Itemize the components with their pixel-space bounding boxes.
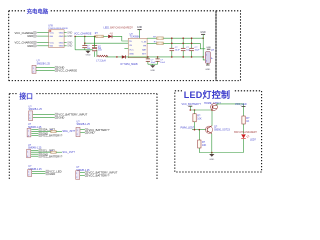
wire J5 pin1: [80, 129, 85, 131]
transistor Q1 (PMOS switch): [211, 104, 220, 111]
connector J5 designator: [77, 120, 91, 126]
connector J3 designator: [28, 144, 42, 149]
wire J4 pin1: [32, 170, 46, 172]
svg-text:D? SS54_SMAB: D? SS54_SMAB: [121, 63, 138, 66]
svg-text:10uF: 10uF: [160, 62, 165, 64]
power bar VCC_LED: [242, 106, 246, 108]
C4 labels: [186, 47, 190, 52]
capacitor C2: [82, 45, 87, 49]
wire J2 pin3: [31, 132, 38, 134]
port GND (pair 1): [27, 34, 37, 38]
port VCC_LED J4: [46, 169, 62, 173]
svg-text:U?8: U?8: [48, 24, 53, 27]
designator U1 label: [48, 24, 68, 30]
port GND J3: [39, 152, 48, 156]
capacitor C2b branch vertical wire: [94, 36, 96, 45]
junction: [211, 152, 213, 154]
svg-text:LED1: LED1: [104, 27, 111, 30]
wire rail A down right side: [202, 38, 204, 57]
resistor R4: [51, 130, 56, 132]
svg-text:2: 2: [77, 134, 78, 136]
svg-text:TC4056A: TC4056A: [130, 36, 141, 39]
wire base row: [192, 129, 206, 131]
svg-text:1: 1: [28, 172, 29, 174]
wire port pair2 to U1: [37, 42, 48, 45]
LED2 red diode: [241, 134, 249, 152]
svg-text:1: 1: [77, 130, 78, 132]
wire J5 pin2: [80, 132, 85, 134]
svg-text:GND: GND: [58, 116, 64, 120]
power bar VCC_BATTERY: [188, 106, 192, 110]
resistor R8: [242, 116, 245, 134]
ground symbol under caps2: [150, 64, 155, 72]
wire BAT rail B: [163, 42, 200, 44]
wire R4 to net label: [56, 130, 62, 132]
svg-text:10uF: 10uF: [195, 50, 201, 52]
port VCC_BATTERY J2: [39, 134, 63, 138]
svg-text:4: 4: [27, 156, 28, 158]
section box: charging circuit 充电电路: [9, 11, 216, 81]
svg-text:2: 2: [28, 175, 29, 177]
wire J6 pin2: [80, 175, 85, 177]
svg-text:GA: GA: [50, 45, 54, 48]
C3 labels: [175, 47, 181, 52]
connector J4 designator: [28, 165, 42, 171]
transistor Q2 NPN: [205, 126, 212, 134]
svg-text:L? 2.2uH: L? 2.2uH: [96, 61, 106, 63]
wire Q2 emitter down: [211, 134, 213, 153]
svg-text:GND: GND: [59, 33, 64, 35]
wire left rail into U2 pin2: [85, 42, 128, 44]
connector J1 designator: [29, 105, 43, 111]
wire caps2 bottom: [148, 63, 158, 65]
svg-text:SDA_JST?: SDA_JST?: [62, 129, 75, 133]
GND power port top right: [200, 31, 206, 38]
connector U4 designator: [37, 60, 51, 66]
junction: [194, 109, 196, 111]
wire J4 pin2: [32, 173, 46, 175]
wire ground rail: [199, 152, 243, 154]
svg-text:10K: 10K: [202, 144, 207, 147]
svg-text:BAT-CHG-IND-RED?: BAT-CHG-IND-RED?: [110, 27, 133, 30]
svg-text:1K: 1K: [246, 120, 249, 123]
port SCL_TOUCH: [39, 148, 56, 152]
svg-text:充电电路: 充电电路: [27, 7, 49, 15]
svg-text:BAT: BAT: [142, 48, 147, 51]
svg-text:VCC: VCC: [50, 33, 55, 35]
junction: [190, 109, 192, 111]
title 充电电路: [26, 7, 51, 15]
port VCC_BATTERY_INPUT: [55, 112, 88, 116]
svg-text:GND: GND: [67, 42, 72, 44]
svg-text:SET: SET: [142, 53, 147, 55]
wire VCC_CHARGE rail: [75, 35, 96, 37]
capacitor C1 branch vertical wire: [74, 36, 76, 49]
port VCC_BATTERY J6: [85, 174, 110, 178]
svg-text:1: 1: [29, 114, 30, 116]
svg-text:4: 4: [28, 135, 29, 137]
diode D1: [122, 55, 126, 58]
GND power port above battery conn: [206, 47, 211, 49]
connector J3 body: [27, 149, 31, 158]
GND power port above U2: [137, 26, 143, 38]
section box: empty right box: [216, 11, 241, 81]
svg-text:GND: GND: [59, 42, 64, 44]
C2b value label: [98, 47, 102, 52]
svg-text:VCC: VCC: [129, 49, 134, 51]
svg-text:SM02B-1.25: SM02B-1.25: [37, 62, 51, 65]
C7 labels: [160, 60, 165, 65]
svg-text:HOME_CTRL?: HOME_CTRL?: [204, 102, 221, 105]
Q2 labels: [214, 126, 230, 132]
diode LED1: [108, 33, 113, 39]
resistor R7: [198, 130, 201, 153]
junctions on bottom rail: [116, 56, 192, 58]
capacitor C2b: [92, 48, 97, 51]
connector J5 body: [76, 127, 80, 136]
port VCC_BATTERY J5: [85, 128, 110, 132]
svg-text:1: 1: [76, 173, 77, 175]
svg-text:S8050_SOT23: S8050_SOT23: [214, 129, 230, 132]
svg-text:GND: GND: [59, 46, 64, 48]
wire J2 pin2 to R4: [31, 130, 50, 132]
svg-text:GND: GND: [205, 69, 210, 71]
R8 labels: [246, 117, 250, 123]
svg-text:GND: GND: [209, 159, 214, 161]
port VCC_CHARGE (pair 1): [15, 31, 38, 35]
svg-text:GND: GND: [150, 70, 155, 72]
capacitor C6: [146, 57, 150, 64]
R7 labels: [202, 141, 207, 147]
junction: [84, 36, 86, 38]
wire LED1 to U2 pin1: [112, 36, 128, 41]
svg-text:GND: GND: [27, 44, 33, 48]
svg-text:GND: GND: [137, 26, 143, 29]
svg-text:VCC_BATTERY?: VCC_BATTERY?: [89, 174, 110, 178]
svg-text:GND: GND: [89, 131, 95, 135]
port GND at U4: [55, 66, 65, 70]
wire J3 pin4: [31, 155, 39, 157]
capacitor C4: [181, 38, 186, 57]
junction: [74, 36, 76, 38]
port SDA_TOUCH: [39, 128, 56, 132]
battery connector U3 body: [205, 52, 214, 64]
charger IC U2 designator: [130, 33, 141, 39]
wire R1 to LED1: [103, 35, 107, 37]
svg-text:GND: GND: [86, 55, 91, 57]
junction: [84, 42, 86, 44]
svg-text:VCC_BATTERY?: VCC_BATTERY?: [42, 134, 63, 138]
wire to conn bottom: [203, 57, 205, 60]
port GND J5: [85, 131, 95, 135]
capacitor C7: [156, 57, 160, 64]
title LED灯控制: [182, 88, 234, 100]
port GND: [55, 116, 65, 120]
wire R5 to net label: [56, 151, 62, 153]
C2 value label: [87, 46, 91, 51]
pin stubs U1 right with GND net labels: [64, 33, 73, 48]
C2b value label: [98, 46, 102, 51]
wire port pair1 to U1: [37, 33, 48, 36]
svg-text:VCC_CHARGE: VCC_CHARGE: [15, 31, 34, 35]
capacitor C3: [170, 38, 175, 57]
wire top row: [190, 109, 212, 111]
section box: LED灯控制: [175, 91, 262, 172]
svg-text:SCL_JST?: SCL_JST?: [62, 150, 75, 154]
svg-text:PWM_LED?: PWM_LED?: [181, 127, 195, 130]
port VCC_BATTERY J3: [39, 154, 63, 158]
wire J3 pin2 to R5: [31, 151, 51, 153]
junction: [94, 36, 96, 38]
capacitor C2 branch vertical wire: [84, 36, 86, 45]
junction: [199, 129, 201, 131]
wire J2 pin4: [31, 134, 38, 136]
connector J2 body: [27, 128, 31, 137]
junction: [202, 56, 204, 58]
port GND J2: [39, 132, 48, 136]
C6 labels: [151, 60, 156, 65]
svg-text:GA: GA: [50, 35, 54, 38]
svg-text:VCC_CHARGE: VCC_CHARGE: [74, 33, 92, 36]
svg-text:VCC_BATTERY?: VCC_BATTERY?: [182, 103, 202, 106]
wire U4 pin2: [36, 69, 55, 71]
svg-text:10K: 10K: [197, 118, 202, 121]
svg-text:CE: CE: [129, 45, 133, 47]
svg-text:1: 1: [28, 131, 29, 133]
mosfet U1 P-MOS-8205 body: [49, 30, 65, 48]
wire down to L row: [96, 50, 98, 57]
wire J2 pin1: [31, 128, 38, 130]
svg-text:GND: GND: [67, 46, 72, 48]
svg-text:BAT-CHG-IND-RED?: BAT-CHG-IND-RED?: [234, 131, 257, 134]
svg-text:VCC_CHARGE: VCC_CHARGE: [58, 69, 77, 73]
wire J6 pin1: [80, 172, 85, 174]
wire GND rail A: [163, 37, 203, 39]
svg-text:GND: GND: [67, 36, 72, 38]
resistor R2: [147, 37, 163, 40]
resistor R5: [51, 151, 56, 153]
wire cap bottoms common: [75, 49, 97, 51]
port GND J4: [46, 172, 56, 176]
wire U4 pin1: [36, 66, 55, 68]
svg-text:2: 2: [76, 177, 77, 179]
connector J1 body: [29, 111, 33, 121]
title 接口: [18, 91, 36, 101]
svg-text:GND: GND: [49, 172, 55, 176]
svg-text:LED灯控制: LED灯控制: [184, 89, 231, 100]
resistor R1: [96, 35, 104, 38]
wire J3 pin3: [31, 153, 39, 155]
svg-text:VCC_BATTERY?: VCC_BATTERY?: [42, 154, 63, 158]
svg-text:GND: GND: [27, 34, 33, 38]
GND power port below battery conn: [205, 63, 210, 71]
charger IC U2 body: [128, 38, 147, 57]
port VCC_CHARGE (pair 2): [15, 41, 38, 45]
svg-text:LED?: LED?: [250, 139, 257, 142]
port VCC_BATTERY_INPUT J6: [85, 171, 118, 175]
wire bottom rail: [97, 56, 203, 58]
connector U4 body: [32, 65, 36, 73]
junctions on rail B: [171, 43, 192, 45]
svg-text:PR: PR: [143, 45, 146, 47]
C5 labels: [195, 47, 201, 52]
ground symbol LED box: [209, 153, 214, 161]
R6 labels: [197, 115, 202, 121]
ground symbol: [85, 50, 90, 57]
svg-text:V_IN: V_IN: [141, 42, 146, 44]
port VCC_CHARGE at U4: [55, 69, 77, 73]
svg-text:VCC: VCC: [50, 42, 55, 44]
resistor R3: [147, 42, 163, 45]
wire J1 pin2: [33, 116, 55, 118]
capacitor C2b: [92, 45, 97, 49]
connector J4 body: [28, 170, 32, 177]
section box: 接口 interface: [9, 94, 157, 180]
connector J6 body: [76, 171, 80, 180]
svg-text:GND: GND: [200, 31, 206, 34]
wire J1 pin1: [33, 113, 55, 115]
svg-text:接口: 接口: [19, 92, 33, 101]
svg-text:GND: GND: [67, 33, 72, 35]
svg-text:2: 2: [29, 118, 30, 120]
junction: [194, 129, 196, 131]
wire Q1 drain down: [211, 110, 213, 126]
svg-text:GND: GND: [59, 36, 64, 38]
svg-text:VCC_CHARGE: VCC_CHARGE: [15, 41, 34, 45]
connector J6 designator: [76, 166, 90, 172]
svg-text:P-MOS-8205-6DFN: P-MOS-8205-6DFN: [48, 28, 68, 30]
junction: [211, 109, 213, 111]
svg-text:SM02B-1.25: SM02B-1.25: [77, 123, 91, 126]
svg-text:1: 1: [33, 68, 34, 70]
svg-text:GND: GND: [129, 54, 134, 56]
wire rail B elbow to conn top: [200, 43, 205, 49]
wire J3 pin1: [31, 149, 39, 151]
capacitor C2b branch vertical wire: [94, 36, 96, 57]
port GND (pair 2): [27, 44, 37, 48]
junctions on rail A: [171, 37, 204, 39]
resistor R6: [193, 110, 196, 130]
inductor L1: [97, 55, 108, 58]
svg-text:10uF: 10uF: [175, 50, 181, 52]
svg-text:2: 2: [33, 71, 34, 73]
svg-text:1: 1: [27, 151, 28, 153]
wire U2 pin3 stub: [124, 48, 128, 50]
wire Q1 to VCC_LED rail: [220, 104, 244, 116]
svg-text:VCC_LED: VCC_LED: [235, 103, 247, 106]
connector J2 designator: [28, 123, 42, 129]
capacitor C5: [189, 38, 194, 57]
